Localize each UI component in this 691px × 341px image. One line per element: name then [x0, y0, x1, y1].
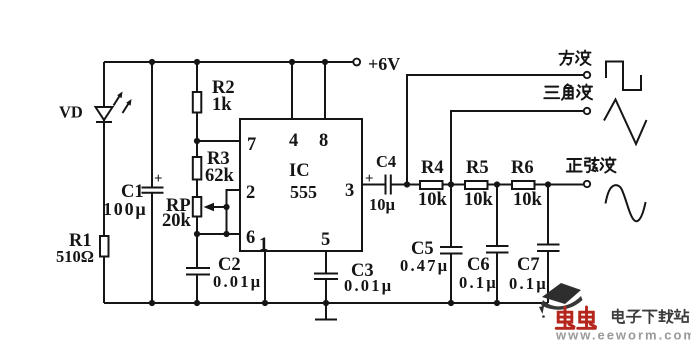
wire R4 to R5 — [443, 184, 466, 186]
svg-text:C6: C6 — [467, 255, 490, 275]
wire C5 upper — [450, 185, 452, 248]
pin 1 — [259, 235, 268, 255]
wire left branch upper — [103, 62, 105, 107]
svg-text:C7: C7 — [517, 255, 540, 275]
svg-text:10µ: 10µ — [369, 195, 396, 214]
svg-text:0.1µ: 0.1µ — [509, 274, 548, 293]
label sine wave — [567, 157, 616, 172]
potentiometer RP — [193, 197, 226, 217]
svg-text:R6: R6 — [511, 158, 534, 178]
svg-text:10k: 10k — [464, 190, 494, 210]
junction node A — [194, 138, 200, 144]
capacitor C5 — [440, 247, 463, 254]
label RP 20k — [162, 196, 192, 231]
junction wiper node — [223, 204, 229, 237]
svg-text:10k: 10k — [513, 190, 543, 210]
wire C7 to bottom rail end — [547, 251, 549, 303]
wire R3 to RP — [196, 180, 198, 198]
sine wave icon — [606, 185, 646, 221]
svg-text:4: 4 — [289, 131, 298, 151]
label IC 555 — [289, 161, 317, 202]
output terminal square — [584, 72, 590, 78]
wire node B to C2 — [196, 234, 198, 268]
wire pin 8 to rail — [324, 62, 326, 119]
watermark logo cap — [539, 283, 583, 318]
wire C3 to bottom rail — [325, 279, 327, 303]
wire pin 4 to rail — [291, 62, 293, 119]
junction node B — [194, 231, 200, 237]
pin 6 — [246, 228, 255, 248]
svg-text:100µ: 100µ — [103, 199, 148, 219]
svg-text:3: 3 — [345, 181, 354, 201]
svg-text:R5: R5 — [466, 158, 489, 178]
svg-text:0.47µ: 0.47µ — [400, 256, 449, 275]
junction dots bottom rail — [149, 300, 500, 306]
wire C7 upper — [547, 185, 549, 245]
wire C1 upper — [151, 62, 153, 187]
label C5 0.47u — [400, 239, 449, 275]
wire RP to node B — [196, 217, 198, 235]
pin 8 — [319, 131, 328, 151]
label C4 10u — [369, 152, 396, 214]
label VD — [59, 103, 83, 122]
label R2 1k — [212, 78, 235, 115]
pin 2 — [246, 183, 255, 203]
capacitor C7 — [537, 245, 560, 252]
capacitor C2 — [186, 268, 210, 275]
svg-text:510Ω: 510Ω — [56, 247, 94, 266]
triangle wave icon — [604, 100, 647, 145]
output terminal sine — [584, 181, 590, 187]
square wave icon — [606, 62, 641, 91]
svg-text:R4: R4 — [421, 158, 444, 178]
svg-text:20k: 20k — [162, 211, 192, 231]
svg-text:6: 6 — [246, 228, 255, 248]
capacitor C3 — [314, 274, 338, 280]
wire node A to R3 — [196, 141, 198, 157]
wire R2 top — [196, 62, 198, 92]
wire R5 to R6 — [488, 184, 513, 186]
wire bottom rail — [104, 302, 548, 304]
watermark chongchong red — [556, 307, 595, 328]
wire pin 3 to C4 — [362, 184, 385, 186]
svg-text:C4: C4 — [376, 152, 396, 171]
capacitor C4 — [365, 171, 391, 195]
wire pin 5 to C3 — [325, 251, 327, 274]
resistor R6 — [512, 181, 535, 189]
junction dots top rail — [149, 59, 328, 65]
label C6 0.1u — [459, 255, 498, 292]
svg-text:+: + — [154, 171, 163, 187]
output terminal triangle — [584, 108, 590, 114]
wire C5 to bottom rail — [450, 254, 452, 304]
resistor R2 — [193, 92, 202, 113]
pin 7 — [247, 135, 256, 155]
wire C6 to bottom rail — [496, 253, 498, 304]
wire wiper node to pin6 wire — [226, 207, 228, 234]
power terminal +6V — [353, 54, 400, 74]
wire node B to pin 6 — [197, 233, 240, 235]
op-amp U1 IC 555 box — [240, 119, 362, 251]
resistor R5 — [465, 181, 488, 189]
wire R1 to bottom rail — [103, 257, 105, 304]
wire VD to R1 — [103, 120, 105, 236]
label square wave — [559, 50, 590, 65]
wire pin 1 to bottom rail — [264, 251, 266, 303]
svg-text:10k: 10k — [418, 190, 448, 210]
wire top +6V rail — [104, 61, 353, 63]
wire C2 to bottom rail — [196, 275, 198, 304]
svg-text:0.1µ: 0.1µ — [459, 273, 498, 292]
wire node A to pin 7 — [197, 140, 240, 142]
capacitor C1 — [142, 171, 164, 193]
wire triangle tap — [451, 111, 584, 185]
svg-text:7: 7 — [247, 135, 256, 155]
ground — [315, 303, 337, 320]
junction dots R chain — [404, 181, 551, 187]
svg-text:0.01µ: 0.01µ — [213, 272, 262, 291]
svg-text:1k: 1k — [212, 95, 232, 115]
svg-text:2: 2 — [246, 183, 255, 203]
wire R6 to sine terminal — [535, 184, 584, 186]
svg-text:VD: VD — [59, 103, 83, 122]
svg-text:5: 5 — [321, 230, 330, 250]
label R1 510ohm — [56, 231, 94, 266]
wire square tap — [407, 75, 584, 185]
svg-text:+: + — [365, 171, 374, 187]
resistor R1 — [100, 236, 109, 257]
svg-text:+6V: +6V — [368, 54, 400, 74]
svg-text:IC: IC — [289, 161, 310, 181]
svg-text:62k: 62k — [205, 166, 235, 186]
pin 3 — [345, 181, 354, 201]
label R5 10k — [464, 158, 494, 210]
label R6 10k — [511, 158, 543, 210]
svg-text:0.01µ: 0.01µ — [344, 276, 393, 295]
svg-text:8: 8 — [319, 131, 328, 151]
wire pin 2 — [227, 190, 241, 207]
label R3 62k — [205, 149, 235, 186]
resistor R3 — [193, 157, 202, 180]
label C1 100u — [103, 182, 148, 219]
pin 4 — [289, 131, 298, 151]
label C2 0.01u — [213, 255, 262, 291]
wire C4 to node C — [391, 184, 420, 186]
label triangle wave — [544, 84, 592, 99]
capacitor C6 — [486, 246, 509, 253]
label C3 0.01u — [344, 261, 393, 295]
resistor R4 — [420, 181, 443, 189]
pin 5 — [321, 230, 330, 250]
wire C6 upper — [496, 185, 498, 247]
label R4 10k — [418, 158, 448, 210]
watermark site name — [613, 309, 689, 323]
label C7 0.1u — [509, 255, 548, 293]
svg-text:www.eeworm.com: www.eeworm.com — [555, 328, 691, 341]
wire C1 lower — [151, 193, 153, 303]
diode VD — [96, 92, 132, 123]
watermark url — [555, 328, 691, 341]
svg-text:555: 555 — [290, 182, 317, 202]
wire R2 to node A — [196, 113, 198, 142]
svg-text:1: 1 — [259, 235, 268, 255]
